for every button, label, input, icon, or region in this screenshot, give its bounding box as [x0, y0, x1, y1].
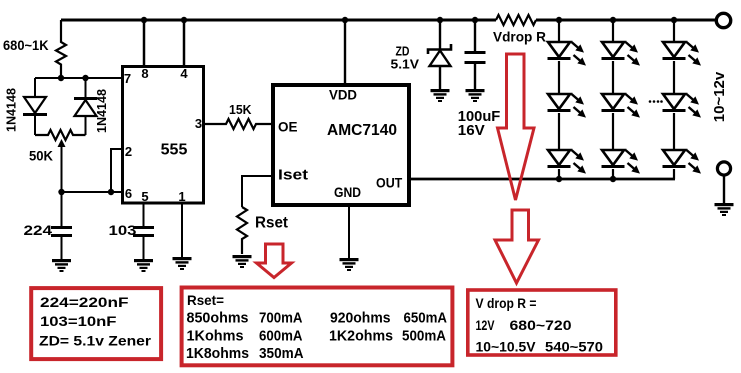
LED D7	[602, 94, 641, 118]
junction dot	[82, 75, 88, 81]
svg-text:2: 2	[125, 144, 132, 159]
svg-text:VDD: VDD	[329, 86, 357, 102]
junction dot	[556, 17, 562, 23]
svg-text:10~10.5V: 10~10.5V	[476, 340, 536, 355]
svg-text:600mA: 600mA	[259, 328, 303, 344]
junction dot	[610, 17, 616, 23]
ground under pin1	[173, 257, 192, 270]
svg-text:16V: 16V	[458, 122, 485, 139]
svg-text:12V: 12V	[476, 318, 495, 333]
wire OUT rail	[409, 178, 675, 181]
svg-text:8: 8	[141, 66, 148, 81]
red box 2 (middle Rset table)	[182, 288, 453, 366]
junction dot	[58, 189, 64, 195]
svg-text:7: 7	[124, 71, 131, 86]
LED D8	[602, 150, 641, 174]
wire pin4	[183, 20, 186, 66]
svg-text:850ohms: 850ohms	[187, 311, 249, 327]
wire pins 2 and 6	[62, 149, 123, 192]
capacitor C2 103	[133, 203, 154, 259]
capacitor C3 100uF	[465, 20, 486, 89]
svg-text:680~720: 680~720	[510, 318, 572, 333]
wire VDD	[344, 20, 346, 85]
resistor 680~1K	[56, 20, 66, 78]
svg-text:1K2ohms: 1K2ohms	[329, 328, 393, 344]
svg-text:V drop R =: V drop R =	[476, 296, 537, 311]
svg-text:540~570: 540~570	[545, 340, 603, 355]
junction dot	[437, 17, 443, 23]
junction dot	[141, 17, 147, 23]
svg-text:GND: GND	[334, 184, 361, 200]
diode D1 1N4148	[23, 78, 47, 135]
wire pin1	[181, 203, 183, 257]
red box 1 (left)	[31, 288, 161, 359]
wire pin7 node	[35, 77, 122, 79]
svg-text:6: 6	[125, 186, 132, 201]
wire pin8	[143, 20, 146, 66]
svg-text:Iset: Iset	[278, 166, 308, 183]
svg-text:4: 4	[180, 66, 188, 81]
svg-text:1: 1	[178, 189, 185, 204]
diode D2 1N4148	[74, 78, 97, 135]
svg-text:1Kohms: 1Kohms	[187, 328, 244, 344]
svg-text:50K: 50K	[29, 148, 53, 164]
red box 3 (V drop table)	[468, 290, 616, 355]
LED D4	[548, 94, 587, 118]
ground under ZD	[431, 89, 450, 102]
ground under 100uF	[466, 89, 485, 102]
ground under C1	[52, 259, 71, 272]
svg-text:1N4148: 1N4148	[94, 89, 109, 133]
junction dot	[556, 176, 562, 182]
ellipsis marks between columns	[649, 100, 663, 103]
svg-text:920ohms: 920ohms	[330, 311, 391, 327]
ground under GND pin	[340, 258, 359, 271]
svg-text:OUT: OUT	[376, 174, 403, 190]
svg-text:15K: 15K	[229, 102, 252, 117]
LED D5	[548, 150, 587, 174]
LED D9	[663, 42, 702, 66]
svg-text:OE: OE	[278, 118, 298, 134]
svg-text:3: 3	[195, 116, 202, 131]
capacitor C1 224	[51, 192, 72, 259]
ground under Rset	[233, 255, 252, 268]
svg-text:1N4148: 1N4148	[3, 88, 18, 132]
zener diode ZD	[428, 20, 451, 89]
LED D6	[602, 42, 641, 66]
svg-text:680~1K: 680~1K	[3, 37, 49, 53]
IC U1 555	[123, 66, 204, 204]
junction dot	[108, 189, 114, 195]
svg-text:10~12v: 10~12v	[711, 71, 728, 122]
svg-text:224: 224	[24, 222, 53, 238]
LED column 3 wires	[673, 20, 675, 179]
junction dot	[472, 17, 478, 23]
LED D11	[663, 150, 702, 174]
svg-text:555: 555	[161, 142, 188, 159]
svg-text:5: 5	[141, 189, 148, 204]
resistor Vdrop R	[496, 15, 536, 25]
svg-text:103=10nF: 103=10nF	[40, 313, 117, 329]
junction dot	[671, 17, 677, 23]
wire GND	[348, 205, 350, 258]
svg-text:Vdrop R: Vdrop R	[493, 29, 546, 45]
LED D10	[663, 94, 702, 118]
svg-text:Rset: Rset	[255, 214, 288, 231]
ground under C2	[134, 259, 153, 272]
svg-text:224=220nF: 224=220nF	[40, 294, 129, 310]
LED column 2 wires	[612, 20, 614, 179]
ground under bottom terminal	[715, 203, 734, 216]
svg-text:Rset=: Rset=	[187, 292, 224, 308]
svg-text:103: 103	[109, 222, 137, 238]
IC U2 AMC7140	[273, 85, 409, 205]
svg-text:350mA: 350mA	[259, 346, 304, 362]
svg-text:ZD= 5.1v Zener: ZD= 5.1v Zener	[39, 332, 152, 348]
LED D3	[548, 42, 587, 66]
svg-text:1K8ohms: 1K8ohms	[186, 346, 249, 362]
terminal bottom right	[717, 162, 730, 203]
resistor 15K	[204, 119, 273, 129]
resistor Rset	[237, 207, 247, 254]
red arrow B (to V drop box)	[495, 210, 539, 283]
svg-text:AMC7140: AMC7140	[327, 122, 397, 139]
junction dot	[610, 176, 616, 182]
LED column 1 wires	[558, 20, 560, 179]
red arrow C (Rset)	[257, 244, 292, 278]
wire Iset	[242, 176, 273, 207]
potentiometer 50K	[35, 130, 86, 192]
wire top rail	[61, 19, 715, 22]
terminal top right	[716, 13, 730, 27]
svg-text:5.1V: 5.1V	[391, 56, 420, 71]
junction dot	[181, 17, 187, 23]
junction dot	[342, 17, 348, 23]
red arrow A (Vdrop)	[498, 54, 535, 200]
svg-text:700mA: 700mA	[259, 311, 303, 327]
junction dot	[58, 75, 64, 81]
svg-text:500mA: 500mA	[402, 328, 446, 344]
svg-text:650mA: 650mA	[404, 311, 448, 327]
